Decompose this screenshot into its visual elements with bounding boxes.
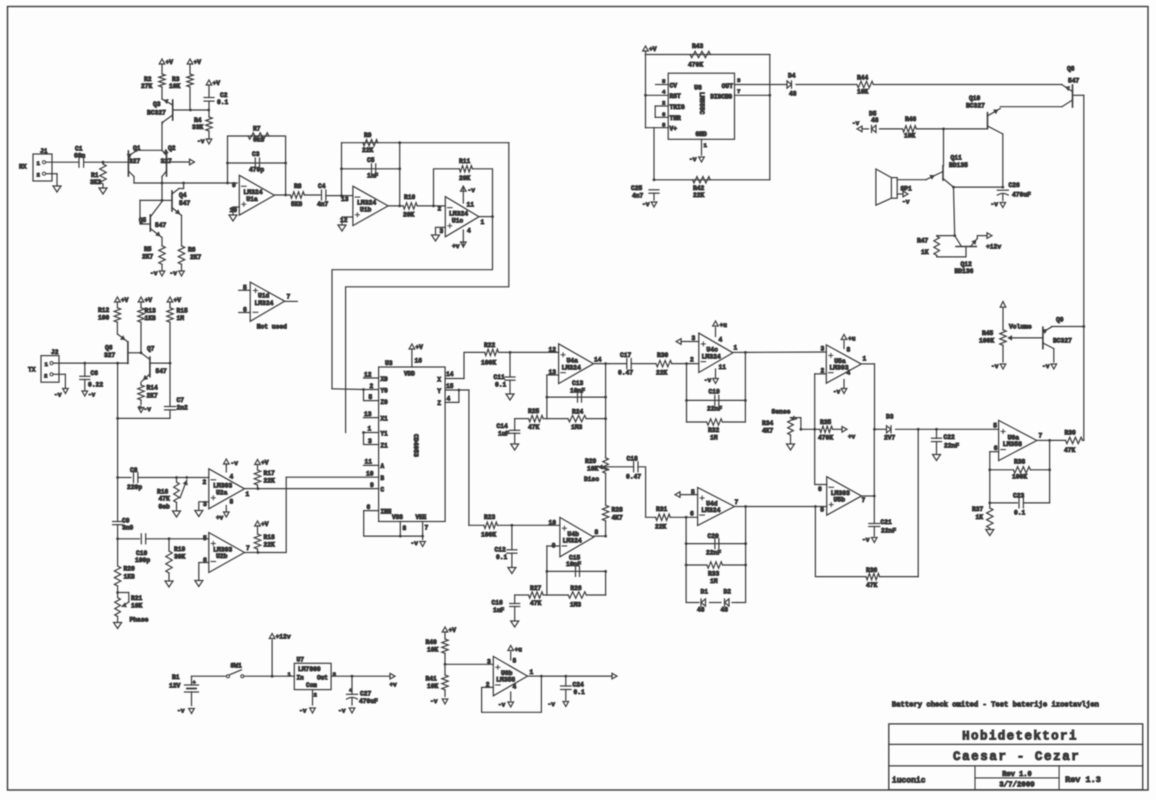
svg-text:22K: 22K bbox=[693, 192, 705, 199]
svg-text:U8: U8 bbox=[694, 85, 702, 92]
svg-text:R13: R13 bbox=[145, 308, 157, 315]
svg-text:Out: Out bbox=[317, 675, 328, 682]
svg-text:Com: Com bbox=[306, 682, 317, 689]
svg-text:R20: R20 bbox=[124, 566, 136, 573]
svg-text:J1: J1 bbox=[40, 148, 48, 155]
svg-text:C27: C27 bbox=[360, 691, 372, 698]
svg-text:Q6: Q6 bbox=[105, 345, 113, 352]
svg-text:Q12: Q12 bbox=[961, 261, 973, 268]
svg-text:R21: R21 bbox=[131, 595, 143, 602]
svg-text:+12v: +12v bbox=[276, 634, 291, 641]
svg-text:BC327: BC327 bbox=[147, 110, 166, 117]
svg-text:C6: C6 bbox=[91, 370, 99, 377]
svg-text:U1c: U1c bbox=[452, 217, 464, 224]
svg-text:R22: R22 bbox=[484, 342, 496, 349]
svg-text:-v: -v bbox=[548, 701, 556, 708]
svg-text:12: 12 bbox=[364, 372, 372, 379]
svg-text:C19: C19 bbox=[709, 389, 721, 396]
svg-text:2: 2 bbox=[662, 100, 666, 107]
svg-text:X: X bbox=[437, 377, 441, 384]
svg-text:7: 7 bbox=[425, 525, 429, 532]
svg-text:R11: R11 bbox=[459, 158, 471, 165]
svg-text:22K: 22K bbox=[264, 478, 276, 485]
svg-text:R33: R33 bbox=[708, 571, 720, 578]
svg-text:OUT: OUT bbox=[722, 83, 734, 90]
svg-text:RST: RST bbox=[670, 93, 682, 100]
svg-text:R27: R27 bbox=[530, 585, 542, 592]
svg-text:22nF: 22nF bbox=[944, 443, 959, 450]
svg-text:6: 6 bbox=[690, 511, 694, 518]
svg-text:R40: R40 bbox=[426, 639, 438, 646]
svg-text:CD4053: CD4053 bbox=[412, 434, 419, 457]
svg-text:470p: 470p bbox=[249, 167, 264, 174]
svg-text:-v: -v bbox=[177, 708, 185, 715]
svg-text:2K7: 2K7 bbox=[147, 393, 159, 400]
svg-text:+V: +V bbox=[213, 80, 221, 87]
svg-text:1M: 1M bbox=[177, 315, 185, 322]
svg-text:TX: TX bbox=[28, 367, 36, 374]
svg-text:8: 8 bbox=[403, 525, 407, 532]
svg-text:U5b: U5b bbox=[834, 497, 846, 504]
svg-text:LM324: LM324 bbox=[702, 353, 721, 360]
svg-text:2: 2 bbox=[314, 692, 318, 699]
svg-text:100K: 100K bbox=[979, 338, 994, 345]
svg-text:BC327: BC327 bbox=[1053, 338, 1072, 345]
svg-text:7: 7 bbox=[735, 499, 739, 506]
svg-text:C22: C22 bbox=[944, 434, 956, 441]
svg-text:4K7: 4K7 bbox=[762, 428, 774, 435]
svg-text:0.1: 0.1 bbox=[217, 99, 229, 106]
svg-text:SW1: SW1 bbox=[231, 663, 243, 670]
svg-text:DISCHG: DISCHG bbox=[710, 94, 732, 101]
svg-text:Rev 1.0: Rev 1.0 bbox=[1002, 771, 1031, 779]
svg-text:X1: X1 bbox=[381, 416, 389, 423]
svg-text:1M3: 1M3 bbox=[570, 602, 582, 609]
svg-text:4: 4 bbox=[230, 474, 234, 481]
svg-text:-v: -v bbox=[902, 199, 910, 206]
svg-text:Phase: Phase bbox=[130, 617, 149, 624]
svg-text:13: 13 bbox=[341, 196, 349, 203]
svg-text:R6: R6 bbox=[188, 247, 196, 254]
svg-text:0.1: 0.1 bbox=[495, 382, 507, 389]
svg-text:0.22: 0.22 bbox=[88, 382, 103, 389]
svg-text:Q7: Q7 bbox=[147, 346, 155, 353]
svg-text:+V: +V bbox=[145, 297, 153, 304]
svg-text:RX: RX bbox=[19, 164, 27, 171]
svg-text:Not used: Not used bbox=[257, 324, 287, 331]
svg-text:C25: C25 bbox=[631, 185, 643, 192]
svg-text:+u: +u bbox=[848, 336, 856, 343]
svg-text:C10: C10 bbox=[136, 550, 148, 557]
svg-text:12: 12 bbox=[340, 217, 348, 224]
svg-text:1: 1 bbox=[481, 219, 485, 226]
svg-text:-v: -v bbox=[468, 187, 476, 194]
svg-text:R3: R3 bbox=[172, 76, 180, 83]
svg-text:2K7: 2K7 bbox=[190, 254, 202, 261]
svg-text:D4: D4 bbox=[788, 73, 796, 80]
svg-text:13: 13 bbox=[364, 411, 372, 418]
svg-text:+12v: +12v bbox=[986, 244, 1001, 251]
svg-text:R24: R24 bbox=[572, 409, 584, 416]
svg-text:THR: THR bbox=[670, 115, 682, 122]
svg-text:Y: Y bbox=[437, 388, 441, 395]
svg-text:22nF: 22nF bbox=[881, 528, 896, 535]
svg-text:6: 6 bbox=[367, 504, 371, 511]
svg-text:1: 1 bbox=[246, 491, 250, 498]
svg-text:100K: 100K bbox=[1012, 474, 1027, 481]
svg-text:R35: R35 bbox=[820, 419, 832, 426]
svg-text:1uF: 1uF bbox=[498, 431, 510, 438]
svg-text:VDD: VDD bbox=[404, 371, 415, 378]
svg-text:R39: R39 bbox=[1065, 430, 1077, 437]
svg-text:1: 1 bbox=[45, 361, 49, 368]
svg-text:R28: R28 bbox=[612, 507, 624, 514]
svg-text:R14: R14 bbox=[147, 385, 159, 392]
svg-text:D2: D2 bbox=[724, 589, 732, 596]
svg-text:C4: C4 bbox=[318, 183, 326, 190]
svg-text:BC327: BC327 bbox=[966, 103, 985, 110]
svg-text:7: 7 bbox=[737, 88, 741, 95]
svg-text:48: 48 bbox=[697, 607, 705, 614]
svg-text:-v: -v bbox=[498, 702, 506, 709]
svg-text:100: 100 bbox=[98, 315, 110, 322]
svg-text:3: 3 bbox=[333, 671, 337, 678]
svg-text:R18: R18 bbox=[264, 534, 276, 541]
svg-text:220p: 220p bbox=[127, 484, 142, 491]
svg-text:Q11: Q11 bbox=[951, 155, 963, 162]
svg-text:J2: J2 bbox=[51, 349, 59, 356]
svg-text:-v: -v bbox=[411, 540, 419, 547]
svg-text:C13: C13 bbox=[572, 380, 584, 387]
svg-text:U2b: U2b bbox=[216, 553, 228, 560]
svg-text:3K3: 3K3 bbox=[90, 179, 102, 186]
svg-text:C16: C16 bbox=[492, 600, 504, 607]
svg-text:R15: R15 bbox=[177, 308, 189, 315]
svg-text:0.1: 0.1 bbox=[1014, 510, 1026, 517]
svg-text:+V: +V bbox=[261, 460, 269, 467]
svg-text:GND: GND bbox=[696, 131, 708, 138]
svg-text:4: 4 bbox=[719, 337, 723, 344]
svg-text:-v: -v bbox=[862, 537, 870, 544]
svg-text:7: 7 bbox=[246, 545, 250, 552]
svg-text:2n2: 2n2 bbox=[177, 405, 189, 412]
svg-text:C8: C8 bbox=[130, 467, 138, 474]
svg-text:Hobidetektori: Hobidetektori bbox=[962, 730, 1078, 744]
svg-text:100K: 100K bbox=[481, 360, 496, 367]
svg-text:R43: R43 bbox=[692, 43, 704, 50]
svg-text:B1: B1 bbox=[172, 674, 180, 681]
svg-text:Q9: Q9 bbox=[1056, 317, 1064, 324]
svg-text:U1b: U1b bbox=[360, 207, 372, 214]
svg-text:22K: 22K bbox=[655, 524, 667, 531]
svg-text:R30: R30 bbox=[657, 352, 669, 359]
svg-text:2: 2 bbox=[438, 206, 442, 213]
svg-text:4n7: 4n7 bbox=[632, 193, 644, 200]
svg-text:LM358: LM358 bbox=[1003, 441, 1022, 448]
svg-text:R10: R10 bbox=[404, 194, 416, 201]
svg-text:14: 14 bbox=[446, 371, 454, 378]
svg-text:1K: 1K bbox=[976, 514, 984, 521]
svg-text:6: 6 bbox=[818, 486, 822, 493]
svg-text:BD135: BD135 bbox=[949, 162, 968, 169]
svg-text:10K: 10K bbox=[427, 647, 439, 654]
svg-text:-v: -v bbox=[704, 377, 712, 384]
svg-text:+V: +V bbox=[415, 344, 423, 351]
svg-text:R36: R36 bbox=[866, 567, 878, 574]
svg-text:47K: 47K bbox=[1064, 447, 1076, 454]
svg-text:+v: +v bbox=[452, 243, 460, 250]
svg-text:3: 3 bbox=[737, 77, 741, 84]
svg-text:D1: D1 bbox=[701, 589, 709, 596]
svg-text:14: 14 bbox=[594, 357, 602, 364]
svg-text:C: C bbox=[381, 487, 385, 494]
svg-text:5: 5 bbox=[993, 423, 997, 430]
svg-text:547: 547 bbox=[179, 200, 191, 207]
svg-text:C7: C7 bbox=[177, 397, 185, 404]
svg-text:2: 2 bbox=[370, 383, 374, 390]
svg-text:10nF: 10nF bbox=[570, 388, 585, 395]
svg-text:+u: +u bbox=[720, 322, 728, 329]
svg-text:6: 6 bbox=[243, 307, 247, 314]
svg-text:7: 7 bbox=[1039, 433, 1043, 440]
svg-text:47K: 47K bbox=[528, 424, 540, 431]
svg-text:-v: -v bbox=[88, 392, 96, 399]
svg-text:Q8: Q8 bbox=[1067, 66, 1075, 73]
svg-text:INH: INH bbox=[381, 509, 392, 516]
svg-text:1K8: 1K8 bbox=[124, 574, 136, 581]
svg-text:R1: R1 bbox=[91, 172, 99, 179]
svg-text:U3: U3 bbox=[385, 360, 393, 367]
svg-text:R46: R46 bbox=[905, 116, 917, 123]
svg-text:5: 5 bbox=[203, 535, 207, 542]
svg-text:U2a: U2a bbox=[216, 489, 228, 496]
svg-text:4: 4 bbox=[513, 684, 517, 691]
svg-text:0.47: 0.47 bbox=[618, 370, 633, 377]
svg-text:4: 4 bbox=[847, 370, 851, 377]
svg-text:47K: 47K bbox=[159, 496, 171, 503]
svg-text:8: 8 bbox=[847, 347, 851, 354]
svg-text:-v: -v bbox=[1042, 363, 1050, 370]
svg-text:Q1: Q1 bbox=[133, 145, 141, 152]
svg-text:-v: -v bbox=[150, 270, 158, 277]
svg-text:R44: R44 bbox=[857, 75, 869, 82]
svg-text:+V: +V bbox=[649, 46, 657, 53]
svg-text:6k8: 6k8 bbox=[253, 137, 265, 144]
svg-text:1: 1 bbox=[863, 356, 867, 363]
svg-text:47K: 47K bbox=[530, 600, 542, 607]
svg-text:10K: 10K bbox=[857, 89, 869, 96]
svg-text:48: 48 bbox=[721, 607, 729, 614]
svg-text:-v: -v bbox=[54, 392, 62, 399]
svg-text:Z0: Z0 bbox=[381, 399, 389, 406]
svg-text:3: 3 bbox=[821, 346, 825, 353]
svg-text:Caesar - Cezar: Caesar - Cezar bbox=[953, 750, 1080, 764]
svg-text:327: 327 bbox=[104, 352, 116, 359]
svg-text:R12: R12 bbox=[98, 307, 110, 314]
svg-text:10: 10 bbox=[549, 520, 557, 527]
svg-text:VEE: VEE bbox=[416, 514, 427, 521]
svg-text:1: 1 bbox=[734, 345, 738, 352]
svg-text:TRIG: TRIG bbox=[670, 104, 685, 111]
svg-text:LM555C: LM555C bbox=[698, 92, 705, 115]
svg-text:1: 1 bbox=[288, 671, 292, 678]
svg-text:6: 6 bbox=[994, 445, 998, 452]
svg-text:+u: +u bbox=[515, 647, 523, 654]
svg-text:R8: R8 bbox=[294, 183, 302, 190]
svg-text:39K: 39K bbox=[174, 554, 186, 561]
svg-text:7: 7 bbox=[862, 497, 866, 504]
svg-text:470K: 470K bbox=[688, 62, 703, 69]
svg-text:1M3: 1M3 bbox=[571, 424, 583, 431]
svg-text:-v: -v bbox=[689, 156, 697, 163]
svg-text:22nF: 22nF bbox=[707, 406, 722, 413]
svg-text:4n7: 4n7 bbox=[317, 201, 329, 208]
svg-text:C5: C5 bbox=[367, 157, 375, 164]
svg-text:R9: R9 bbox=[364, 132, 372, 139]
svg-text:547: 547 bbox=[156, 368, 168, 375]
svg-text:R23: R23 bbox=[484, 514, 496, 521]
svg-text:470uF: 470uF bbox=[359, 698, 378, 705]
svg-text:20K: 20K bbox=[459, 175, 471, 182]
svg-text:68n: 68n bbox=[74, 153, 86, 160]
svg-text:Y1: Y1 bbox=[381, 431, 389, 438]
svg-text:Z: Z bbox=[437, 400, 441, 407]
svg-text:C1: C1 bbox=[75, 146, 83, 153]
svg-text:R34: R34 bbox=[762, 420, 774, 427]
svg-text:R25: R25 bbox=[528, 408, 540, 415]
svg-text:-v: -v bbox=[642, 201, 650, 208]
svg-text:4K7: 4K7 bbox=[612, 515, 624, 522]
svg-text:R42: R42 bbox=[693, 185, 705, 192]
svg-text:20K: 20K bbox=[403, 212, 415, 219]
svg-text:LM324: LM324 bbox=[701, 507, 720, 514]
svg-text:-v: -v bbox=[231, 460, 239, 467]
svg-text:48: 48 bbox=[871, 117, 879, 124]
svg-text:12V: 12V bbox=[169, 683, 181, 690]
svg-text:+V: +V bbox=[166, 59, 174, 66]
svg-text:8: 8 bbox=[513, 658, 517, 665]
svg-text:22K: 22K bbox=[656, 370, 668, 377]
svg-text:2: 2 bbox=[37, 172, 41, 179]
svg-text:100p: 100p bbox=[135, 557, 150, 564]
svg-text:8: 8 bbox=[662, 121, 666, 128]
svg-text:-v: -v bbox=[991, 363, 999, 370]
svg-text:6: 6 bbox=[662, 111, 666, 118]
svg-text:C21: C21 bbox=[881, 519, 893, 526]
svg-text:1M: 1M bbox=[710, 435, 718, 442]
svg-text:0.1: 0.1 bbox=[496, 554, 508, 561]
svg-text:4: 4 bbox=[447, 396, 451, 403]
svg-text:CV: CV bbox=[670, 83, 678, 90]
svg-text:9: 9 bbox=[370, 482, 374, 489]
svg-text:R5: R5 bbox=[144, 246, 152, 253]
svg-text:C20: C20 bbox=[708, 533, 720, 540]
svg-text:C23: C23 bbox=[1013, 493, 1025, 500]
svg-text:5: 5 bbox=[662, 78, 666, 85]
svg-text:3: 3 bbox=[440, 228, 444, 235]
svg-text:BD136: BD136 bbox=[955, 268, 974, 275]
svg-text:R26: R26 bbox=[570, 585, 582, 592]
svg-text:+: + bbox=[349, 688, 352, 694]
svg-text:4: 4 bbox=[662, 89, 666, 96]
svg-text:10K: 10K bbox=[169, 83, 181, 90]
svg-text:Battery check omited - Test ba: Battery check omited - Test baterije izo… bbox=[892, 702, 1099, 710]
svg-text:A: A bbox=[381, 463, 385, 470]
svg-text:8: 8 bbox=[230, 499, 234, 506]
svg-text:5: 5 bbox=[820, 507, 824, 514]
svg-text:-v: -v bbox=[833, 389, 841, 396]
svg-text:C9: C9 bbox=[122, 518, 130, 525]
svg-text:VSS: VSS bbox=[392, 514, 403, 521]
svg-text:+v: +v bbox=[216, 515, 224, 522]
svg-text:+V: +V bbox=[174, 297, 182, 304]
svg-text:R45: R45 bbox=[982, 330, 994, 337]
svg-text:Geb: Geb bbox=[159, 504, 171, 511]
svg-text:3n9: 3n9 bbox=[122, 525, 134, 532]
svg-text:-v: -v bbox=[197, 138, 205, 145]
svg-text:R17: R17 bbox=[264, 470, 276, 477]
svg-text:Z1: Z1 bbox=[381, 443, 389, 450]
svg-text:547: 547 bbox=[155, 222, 167, 229]
svg-text:4: 4 bbox=[467, 228, 471, 235]
svg-text:5K6: 5K6 bbox=[291, 201, 303, 208]
svg-text:SP1: SP1 bbox=[901, 186, 913, 193]
svg-text:-v: -v bbox=[991, 201, 999, 208]
svg-text:R2: R2 bbox=[144, 76, 152, 83]
svg-text:22nF: 22nF bbox=[706, 550, 721, 557]
svg-text:1K: 1K bbox=[921, 249, 929, 256]
svg-text:R16: R16 bbox=[157, 489, 169, 496]
svg-text:100K: 100K bbox=[481, 532, 496, 539]
svg-text:11: 11 bbox=[467, 202, 475, 209]
svg-text:V+: V+ bbox=[670, 126, 678, 133]
svg-text:U1d: U1d bbox=[258, 293, 270, 300]
svg-text:1: 1 bbox=[530, 669, 534, 676]
svg-text:+V: +V bbox=[194, 59, 202, 66]
svg-text:-v: -v bbox=[852, 120, 860, 127]
svg-text:2V7: 2V7 bbox=[884, 435, 896, 442]
svg-text:Q4: Q4 bbox=[179, 192, 187, 199]
svg-text:R41: R41 bbox=[426, 676, 438, 683]
svg-text:C14: C14 bbox=[497, 423, 509, 430]
svg-text:C24: C24 bbox=[573, 682, 585, 689]
svg-text:1: 1 bbox=[368, 426, 372, 433]
svg-text:D3: D3 bbox=[886, 414, 894, 421]
svg-text:R47: R47 bbox=[917, 238, 929, 245]
svg-text:C18: C18 bbox=[627, 456, 639, 463]
svg-text:470K: 470K bbox=[818, 435, 833, 442]
svg-text:470uF: 470uF bbox=[1012, 192, 1031, 199]
svg-text:3: 3 bbox=[368, 438, 372, 445]
svg-text:1M: 1M bbox=[710, 578, 718, 585]
svg-text:7: 7 bbox=[287, 294, 291, 301]
svg-text:15: 15 bbox=[446, 383, 454, 390]
svg-text:3/7/2009: 3/7/2009 bbox=[999, 781, 1034, 789]
svg-text:Disc: Disc bbox=[584, 476, 599, 483]
svg-text:547: 547 bbox=[1068, 78, 1080, 85]
svg-text:R32: R32 bbox=[708, 427, 720, 434]
svg-text:LM324: LM324 bbox=[255, 300, 274, 307]
svg-text:+V: +V bbox=[449, 627, 457, 634]
svg-text:2: 2 bbox=[44, 373, 48, 380]
svg-text:22K: 22K bbox=[362, 147, 374, 154]
svg-text:X0: X0 bbox=[381, 376, 389, 383]
svg-text:8: 8 bbox=[595, 529, 599, 536]
svg-text:327: 327 bbox=[129, 158, 141, 165]
svg-text:C17: C17 bbox=[620, 352, 632, 359]
svg-text:Y0: Y0 bbox=[381, 388, 389, 395]
svg-text:C11: C11 bbox=[494, 374, 506, 381]
